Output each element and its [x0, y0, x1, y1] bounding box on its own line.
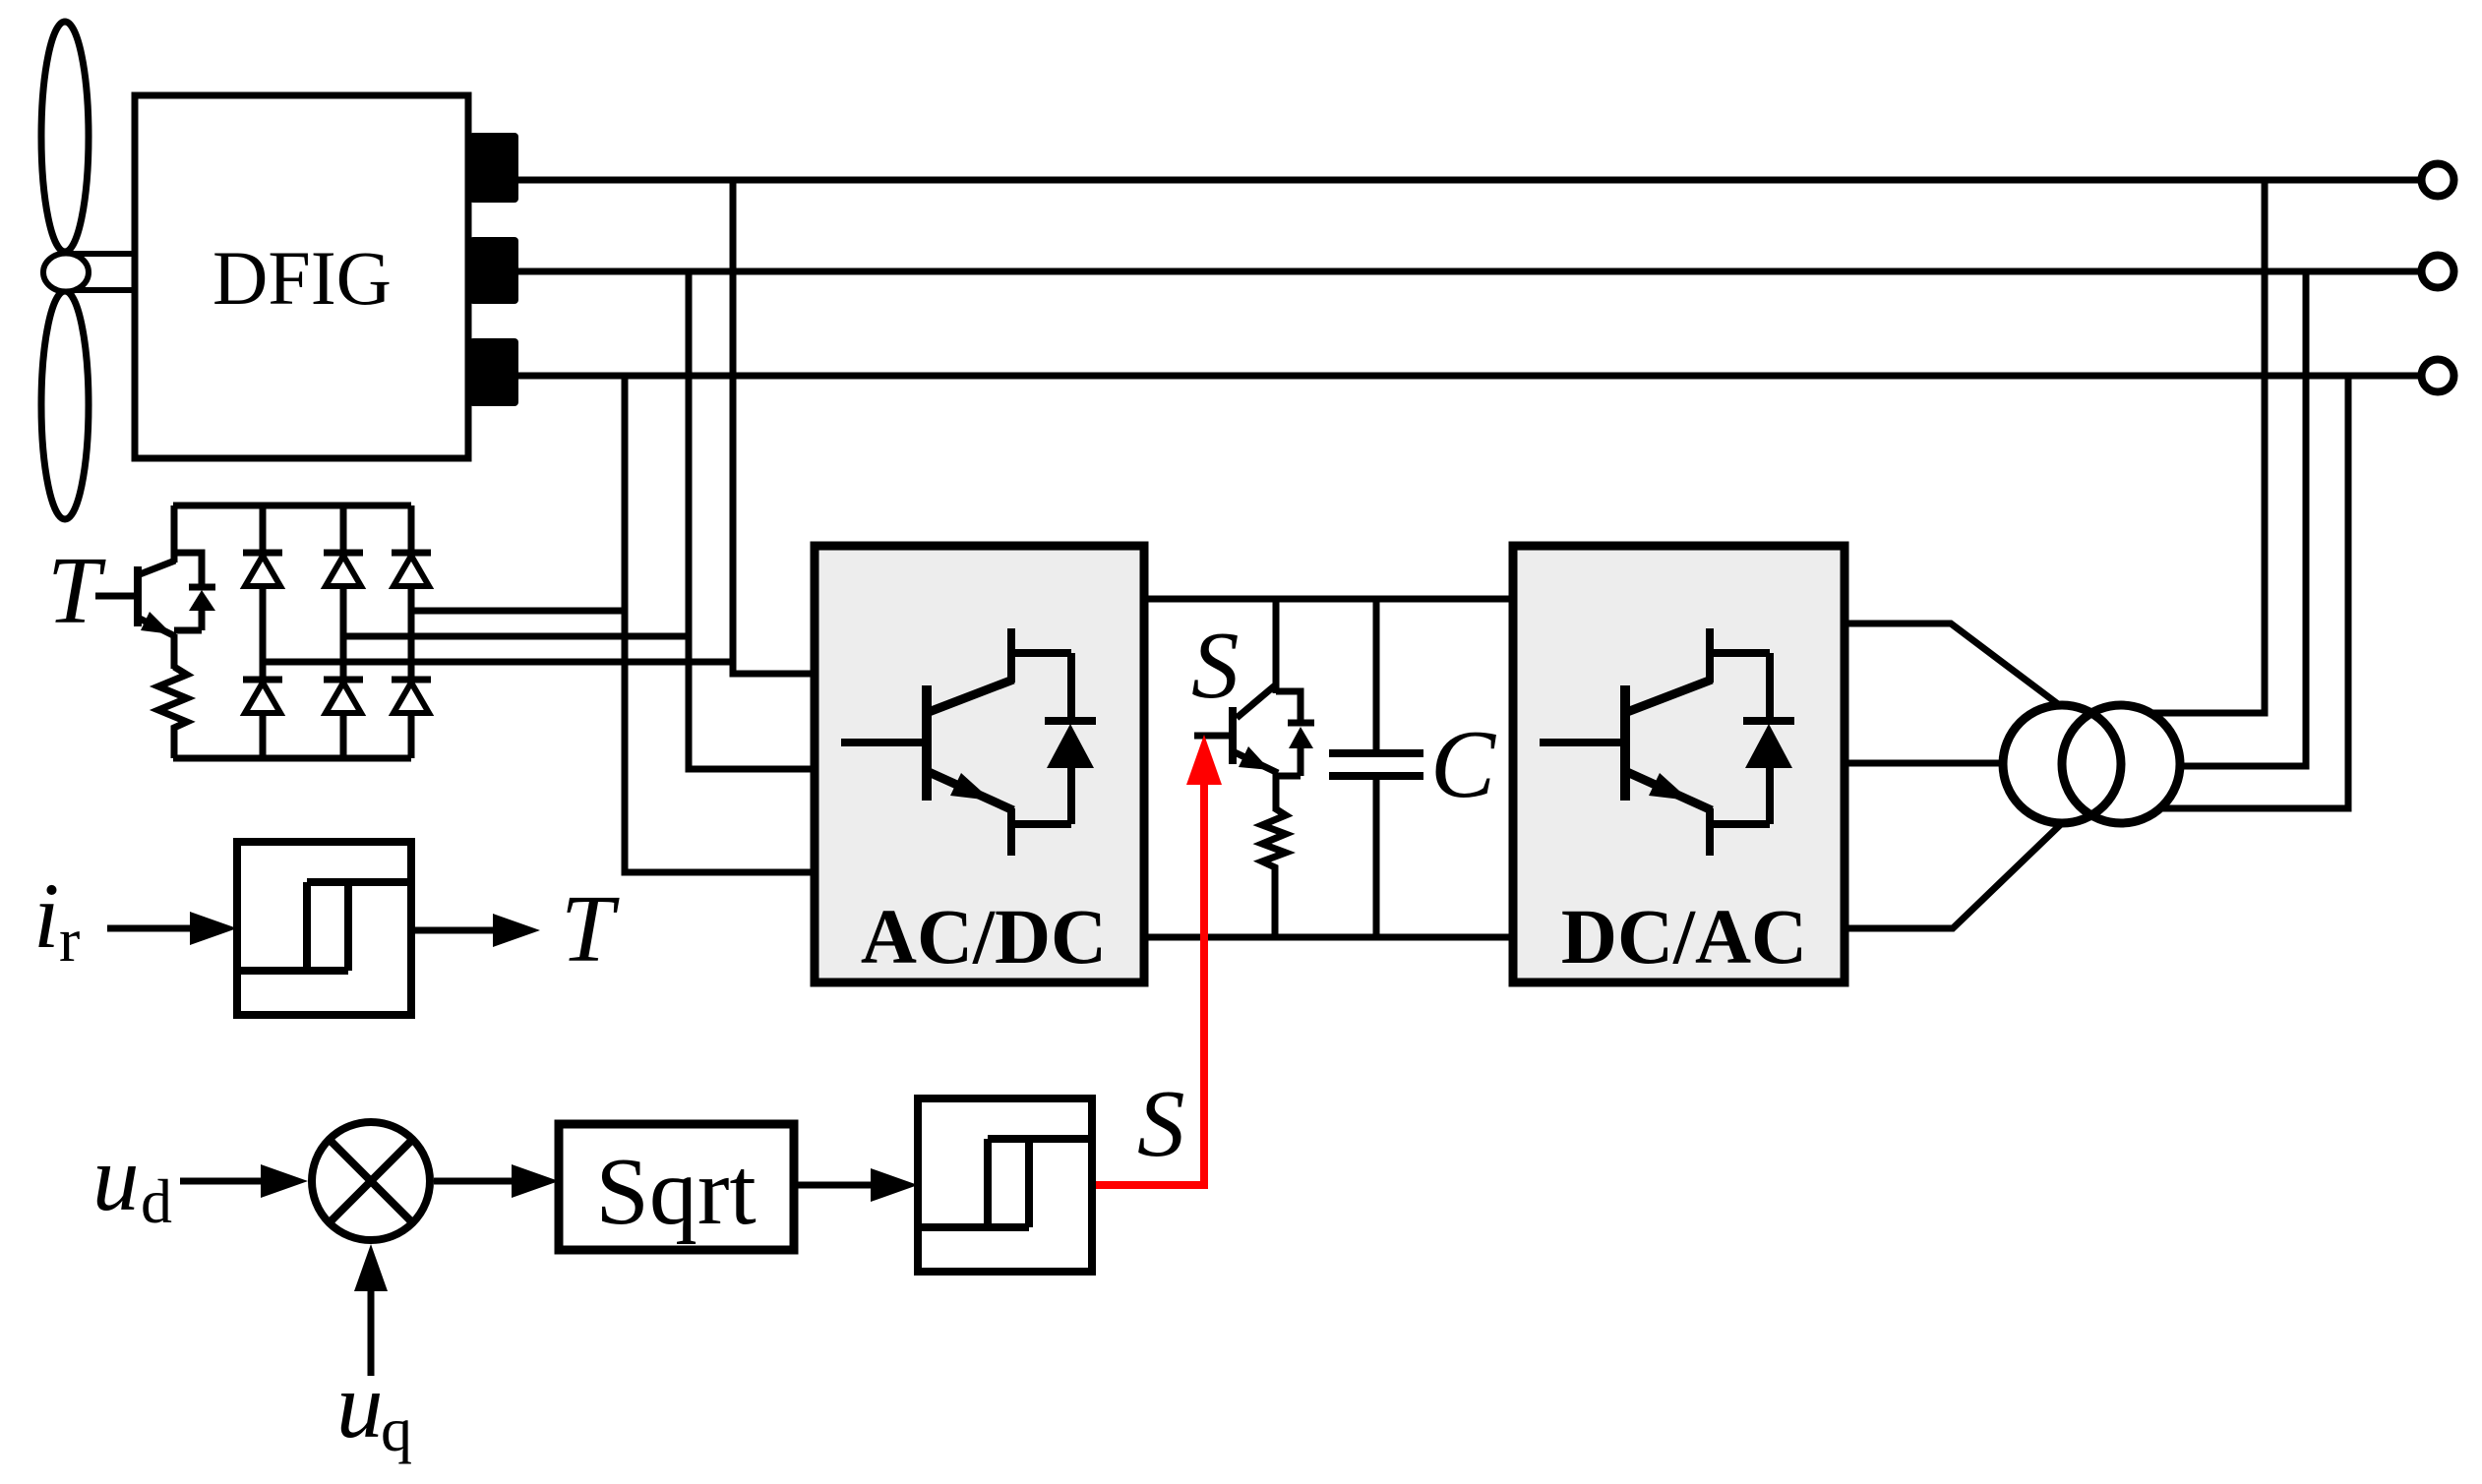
wire: tap from phase C down to AC/DC input 3	[625, 376, 818, 872]
wire: DC/AC output c to transformer	[1845, 825, 2060, 928]
diode D2	[324, 553, 363, 586]
svg-text:T: T	[47, 538, 106, 643]
grid terminal C	[2422, 360, 2454, 392]
wind turbine shaft	[65, 254, 135, 290]
crowbar resistor R	[158, 667, 187, 758]
AC/DC converter box	[815, 546, 1144, 982]
wire: DC/AC output a to transformer	[1845, 623, 2062, 707]
input arrow u_q	[368, 1290, 375, 1376]
relay block 2 (voltage)	[918, 1098, 1092, 1272]
svg-text:u: u	[92, 1126, 140, 1230]
DC/AC IGBT icon	[1540, 628, 1794, 856]
DC/AC converter box	[1513, 546, 1845, 982]
wire: bridge AC tap 3	[411, 608, 625, 615]
red gate arrowhead	[1186, 735, 1222, 785]
grid terminal A	[2422, 164, 2454, 197]
arrow Sqrt to relay 2	[794, 1182, 873, 1189]
bridge leg 1	[260, 505, 267, 758]
diode D3	[392, 553, 431, 586]
wind turbine blade lower	[41, 291, 89, 519]
phase line B (middle stator line to grid)	[518, 268, 2422, 275]
svg-text:AC/DC: AC/DC	[861, 895, 1107, 980]
bridge leg 2	[340, 505, 347, 758]
wire: DC/AC output b to transformer	[1845, 760, 2009, 767]
crowbar top rail	[173, 503, 411, 509]
DC link bottom rail	[1144, 934, 1513, 941]
svg-text:r: r	[59, 905, 80, 975]
relay block 1 (rotor current)	[237, 842, 411, 1015]
input arrow i_r	[107, 925, 192, 932]
DC link top rail	[1144, 596, 1513, 603]
chopper transistor S branch	[1194, 599, 1278, 811]
phase line C (bottom stator line to grid)	[518, 373, 2422, 380]
diode D4	[243, 680, 282, 713]
DFIG generator box	[135, 95, 468, 458]
stator terminal block 3	[469, 338, 518, 406]
crowbar bottom rail	[173, 755, 411, 762]
svg-text:S: S	[1137, 1071, 1185, 1176]
stator terminal block 1	[469, 133, 518, 203]
wind turbine blade upper	[41, 22, 89, 252]
transformer T1 (two overlapped winding circles)	[2003, 705, 2180, 823]
red gate wire S	[1087, 785, 1204, 1185]
svg-text:C: C	[1430, 711, 1496, 818]
svg-text:DFIG: DFIG	[212, 235, 392, 321]
svg-text:Sqrt: Sqrt	[595, 1139, 756, 1245]
svg-text:T: T	[561, 876, 620, 981]
wire: bridge AC tap 1	[263, 659, 733, 666]
svg-text:q: q	[381, 1395, 412, 1464]
phase line A (top stator line to grid)	[518, 177, 2422, 184]
svg-text:i: i	[33, 863, 59, 968]
diode D1	[243, 553, 282, 586]
multiplier circle	[312, 1122, 430, 1240]
input arrow u_d	[180, 1178, 263, 1185]
svg-text:u: u	[336, 1353, 384, 1457]
stator terminal block 2	[469, 237, 518, 304]
output arrow to T	[411, 927, 494, 934]
wire: transformer secondary b up to phase B	[2182, 271, 2306, 766]
capacitor C	[1329, 599, 1423, 937]
svg-text:S: S	[1191, 613, 1240, 718]
wire: transformer secondary c up to phase C	[2160, 376, 2348, 808]
chopper freewheel diode	[1276, 691, 1314, 776]
Sqrt block	[559, 1124, 794, 1250]
crowbar transistor T (IGBT with antiparallel diode)	[95, 505, 175, 669]
diode D5	[324, 680, 363, 713]
grid terminal B	[2422, 256, 2454, 288]
wire: bridge AC tap 2	[343, 633, 689, 640]
wind turbine hub	[43, 254, 89, 292]
svg-text:DC/AC: DC/AC	[1561, 895, 1807, 980]
diode D6	[392, 680, 431, 713]
wire: tap from phase B down to AC/DC input 2	[689, 271, 818, 769]
wire: transformer secondary a up to phase A	[2150, 180, 2265, 713]
svg-text:d: d	[141, 1166, 172, 1236]
AC/DC IGBT icon	[841, 628, 1096, 856]
chopper resistor	[1262, 808, 1286, 937]
wire: tap from phase A down to AC/DC input 1	[733, 180, 818, 674]
crowbar freewheel diode	[174, 553, 215, 630]
bridge leg 3	[408, 505, 415, 758]
arrow multiplier to Sqrt	[434, 1178, 515, 1185]
